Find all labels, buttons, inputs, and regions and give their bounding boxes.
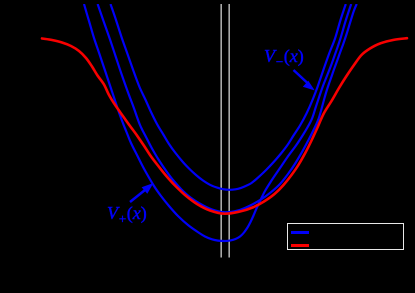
red curve — [42, 38, 407, 214]
blue curve V- shallow — [111, 4, 346, 190]
label V-(x) — [264, 46, 304, 70]
legend box — [287, 223, 404, 250]
blue companion curve — [98, 4, 357, 212]
blue curve V+ deep — [84, 4, 351, 241]
arrow to V+ — [130, 183, 154, 202]
arrow to V- — [294, 70, 315, 91]
label V+(x) — [107, 203, 147, 227]
vertical marker line x2 — [228, 4, 230, 258]
vertical marker line x1 — [220, 4, 222, 258]
